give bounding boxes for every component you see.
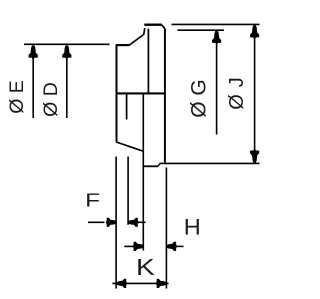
svg-text:Ø J: Ø J [226,77,248,110]
svg-text:Ø D: Ø D [40,82,62,117]
svg-text:F: F [85,190,100,211]
svg-text:K: K [136,255,155,280]
svg-text:H: H [184,214,201,239]
svg-text:Ø G: Ø G [187,79,210,118]
svg-text:Ø E: Ø E [6,80,28,114]
